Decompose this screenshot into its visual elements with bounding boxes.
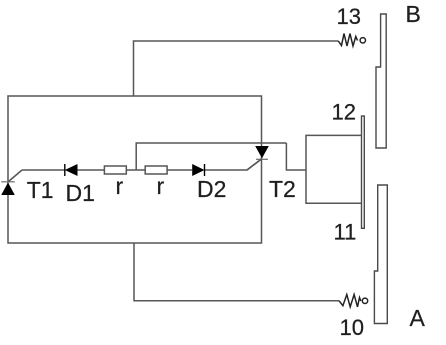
terminal circle 10	[362, 298, 367, 303]
wire between resistor r and D2	[167, 169, 192, 171]
svg-text:D1: D1	[66, 180, 95, 206]
wire between D1 and resistor r	[78, 169, 105, 171]
resistor (zigzag) near terminal 13	[338, 34, 357, 47]
thyristor T1	[1, 170, 22, 195]
svg-text:A: A	[410, 305, 426, 331]
svg-text:13: 13	[337, 4, 361, 29]
wire from T2 branch into coil box	[286, 143, 306, 170]
diode D2	[192, 164, 204, 176]
terminal circle 13	[360, 38, 365, 43]
svg-text:r: r	[157, 173, 165, 199]
resistor (zigzag) near terminal 10	[339, 295, 361, 307]
svg-text:11: 11	[334, 220, 357, 245]
svg-text:12: 12	[332, 100, 356, 125]
resistor r (right)	[145, 166, 167, 174]
svg-text:D2: D2	[197, 176, 226, 202]
svg-text:T1: T1	[27, 177, 54, 203]
wire from D2 to T2 gate	[205, 159, 262, 171]
thyristor T2	[247, 146, 269, 170]
svg-text:r: r	[116, 173, 124, 199]
diode D1	[65, 164, 78, 176]
contact blade B	[376, 14, 386, 148]
relay coil box	[306, 135, 362, 203]
wire main row left segment	[22, 169, 65, 171]
svg-text:B: B	[406, 1, 421, 27]
resistor r (left)	[104, 166, 126, 174]
main enclosure rectangle	[8, 96, 262, 243]
wire top vertical from node to B resistor line	[134, 41, 339, 96]
wire bottom vertical from rectangle to A resistor line	[134, 243, 339, 301]
inner loop wire from resistor midpoint node up and right	[136, 143, 286, 170]
contact blade 12/11 (armature)	[362, 116, 365, 228]
svg-text:T2: T2	[269, 176, 296, 202]
wire between resistors	[126, 169, 145, 171]
svg-text:10: 10	[340, 315, 364, 340]
contact blade A	[374, 185, 387, 324]
